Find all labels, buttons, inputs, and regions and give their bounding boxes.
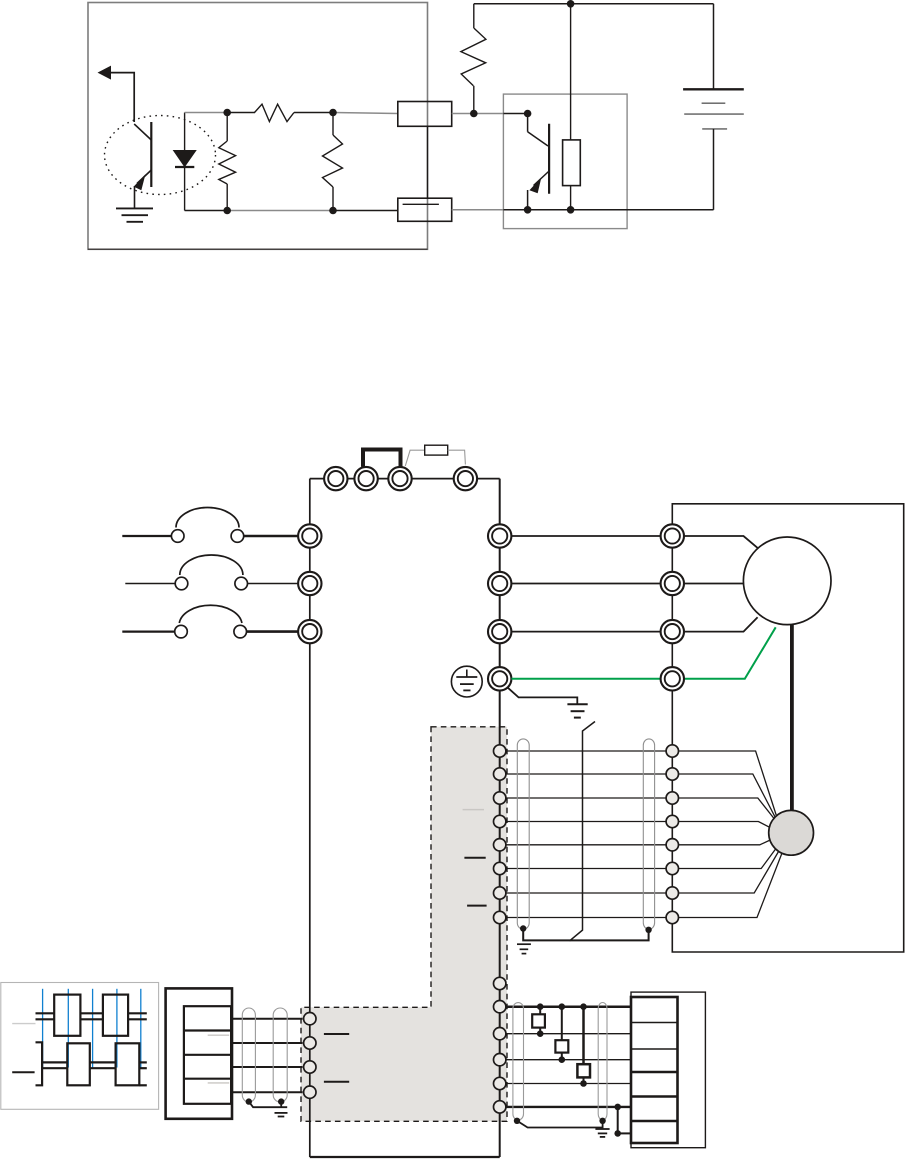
- shield loop (drive side, encoder cable): [517, 739, 529, 929]
- encoder pin 7 (motor side): [666, 887, 678, 899]
- encoder fan-out wire 3: [679, 798, 778, 822]
- shield junction left (pulse): [246, 1098, 252, 1104]
- node: contact 2 bottom: [559, 1056, 566, 1063]
- pulse input pin 1: [304, 1013, 316, 1025]
- encoder wire row 3: [506, 797, 666, 799]
- shield drain junction (left): [520, 925, 526, 931]
- I/O pin 3: [494, 1054, 506, 1066]
- input terminal R: [298, 524, 321, 547]
- relay coil box DO+: [398, 102, 452, 127]
- motor shaft link to encoder: [790, 624, 794, 810]
- encoder pin 5 (drive side): [494, 839, 506, 851]
- pulse wire 2: [231, 1042, 302, 1044]
- encoder pin 8 (drive side): [494, 911, 506, 923]
- terminal P (top row): [354, 467, 377, 490]
- encoder wire row 1: [506, 750, 666, 752]
- braking resistor: [405, 445, 465, 466]
- output terminal V (drive): [488, 572, 511, 595]
- shield loop (pulse cable, left): [242, 1008, 255, 1102]
- encoder pin 4 (drive side): [494, 815, 506, 827]
- circuit breaker pole 2: [125, 555, 298, 590]
- I/O pin 0 (spare): [494, 977, 506, 989]
- photodiode D-opto: [174, 113, 196, 211]
- pulse input pin 3: [304, 1061, 316, 1073]
- wire: W drive to motor terminal: [511, 631, 660, 633]
- shield drain wire (pulse): [249, 1102, 287, 1108]
- label dash (encoder row 5): [464, 857, 485, 859]
- I/O connector pin block: [631, 997, 678, 1143]
- DC bus jumper bar (P-P1): [363, 450, 401, 467]
- label dash (connector cell 4, gray): [208, 1082, 230, 1084]
- wire: external top rail: [474, 3, 714, 5]
- circuit breaker pole 3: [122, 605, 298, 638]
- resistor R4 (external pull-up): [461, 4, 486, 114]
- shield loop (I/O cable, right): [598, 1003, 607, 1120]
- encoder fan-out wire 2: [679, 774, 777, 819]
- shield drain wire (I/O): [517, 1121, 603, 1128]
- encoder pin 4 (motor side): [666, 815, 678, 827]
- terminal B2 (top row): [454, 467, 477, 490]
- node: contact 3 top: [580, 1003, 587, 1010]
- ground (encoder shield): [517, 944, 531, 953]
- wire: split to connector: [618, 1132, 632, 1134]
- node: contact 2 top: [559, 1003, 566, 1010]
- encoder pin 3 (motor side): [666, 792, 678, 804]
- label dash (pulse pin 4): [324, 1081, 349, 1083]
- waveform blue gridline 4: [116, 989, 118, 1068]
- resistor R2 (shunt, vertical at node A): [219, 113, 236, 211]
- shield junction right (pulse): [278, 1098, 284, 1104]
- encoder wire row 6: [506, 868, 666, 870]
- terminal B1 (top row): [388, 467, 411, 490]
- relay contact 1: [532, 1007, 545, 1034]
- label dash (waveform B): [12, 1071, 34, 1073]
- motor terminal V: [661, 572, 684, 595]
- waveform phase A pulses: [36, 995, 147, 1036]
- drive outline: bottom edge: [310, 1156, 500, 1158]
- node B top: [329, 109, 337, 117]
- relay contact 3: [577, 1007, 590, 1084]
- drive outline: right bus: [499, 479, 501, 1157]
- label dash (pulse pin 2): [324, 1033, 349, 1035]
- wire: split down: [617, 1107, 619, 1134]
- node: Q1 emitter to rail: [524, 206, 532, 214]
- input terminal S: [298, 572, 321, 595]
- node: Q1 collector: [524, 110, 532, 118]
- node A bottom: [223, 207, 231, 215]
- pulse wire 4: [231, 1091, 302, 1093]
- resistor R5 (load, rectangle): [563, 4, 581, 210]
- I/O wire row 5 (thick): [506, 1106, 632, 1108]
- drive outline: top edge: [310, 478, 500, 480]
- encoder fan-out wire 1: [679, 751, 777, 816]
- input terminal T: [298, 620, 321, 643]
- waveform blue gridline 1: [42, 989, 44, 1068]
- encoder wire row 5: [506, 844, 666, 846]
- motor enclosure box: [672, 504, 903, 952]
- motor M: [743, 537, 831, 625]
- waveform blue gridline 3: [92, 989, 94, 1068]
- pulse wire 1: [231, 1018, 302, 1020]
- wire: node to series resistor: [227, 112, 255, 114]
- wire: motor lead W: [685, 617, 758, 631]
- wire: resistor to node B: [294, 112, 333, 114]
- motor ground terminal: [661, 667, 684, 690]
- shield drain junction (right): [645, 927, 651, 933]
- label dash (encoder, gray): [463, 809, 484, 811]
- I/O pin 1: [494, 1001, 506, 1013]
- encoder pin 6 (motor side): [666, 862, 678, 874]
- encoder fan-out wire 4: [679, 822, 770, 828]
- opto-isolator dotted ellipse PC1: [105, 116, 216, 195]
- node: top rail to load resistor: [567, 0, 575, 8]
- relay coil box DO- (with inner line): [398, 198, 452, 221]
- pulse connector outer shell: [166, 988, 232, 1118]
- encoder pin 2 (drive side): [494, 768, 506, 780]
- shield loop (motor side, encoder cable): [643, 739, 654, 929]
- wire: enclosure bottom edge (dark): [88, 248, 428, 250]
- waveform blue gridline 5: [140, 989, 142, 1068]
- encoder pin 7 (drive side): [494, 887, 506, 899]
- transistor Q1 (inside controller box): [503, 114, 549, 210]
- wire: U drive to motor terminal: [511, 535, 660, 537]
- encoder fan-out wire 7: [679, 849, 781, 894]
- ground terminal (drive): [488, 667, 511, 690]
- I/O wire row 3: [506, 1059, 632, 1061]
- node: I/O bus split bottom: [614, 1130, 621, 1137]
- pulse input pin 4: [304, 1086, 316, 1098]
- encoder wire row 2: [506, 773, 666, 775]
- waveform box: [1, 983, 159, 1110]
- motor terminal U: [661, 524, 684, 547]
- ground lead from earth terminal: [508, 688, 588, 718]
- encoder fan-out wire 5: [679, 840, 772, 845]
- encoder pin 1 (motor side): [666, 745, 678, 757]
- node: contact 1 bottom: [537, 1030, 544, 1037]
- encoder pin 8 (motor side): [666, 911, 678, 923]
- motor terminal W: [661, 620, 684, 643]
- circuit breaker pole 1: [122, 508, 298, 543]
- label dash (encoder row 7): [467, 905, 487, 907]
- shield loop (I/O cable, left): [513, 1003, 524, 1120]
- wire: bottom rail: [185, 210, 228, 212]
- terminal P1 (top row): [324, 467, 347, 490]
- wire: motor lead U: [685, 536, 758, 548]
- ground (I/O shield): [595, 1129, 609, 1137]
- encoder wire row 7: [506, 892, 666, 894]
- shield junction left (I/O): [514, 1118, 520, 1124]
- pulse input pin 2: [304, 1037, 316, 1049]
- encoder pin 6 (drive side): [494, 862, 506, 874]
- shield drain wire: [523, 929, 648, 941]
- resistor R3 (shunt, vertical at node B): [323, 113, 343, 211]
- wire: V drive to motor terminal: [511, 583, 660, 585]
- wire: DO- box to external box (gray): [452, 209, 504, 211]
- phototransistor Q-opto: [134, 122, 151, 208]
- encoder pin 2 (motor side): [666, 768, 678, 780]
- resistor R1 (series, horizontal): [255, 104, 295, 121]
- battery B1: [683, 4, 744, 210]
- I/O wire row 4: [506, 1083, 632, 1085]
- waveform phase B pulses: [36, 1042, 147, 1085]
- wire: node B to relay box (gray): [333, 113, 398, 114]
- output terminal U (drive): [488, 524, 511, 547]
- wire: DO+ box to external node (gray): [452, 113, 504, 115]
- label dash (waveform A, gray): [12, 1023, 35, 1025]
- wire: motor lead V: [685, 583, 746, 585]
- node B bottom: [329, 207, 337, 215]
- cable shield slash mark: [570, 722, 596, 941]
- I/O pin 2: [494, 1028, 506, 1040]
- I/O wire row 1 (thick): [506, 1005, 632, 1008]
- encoder pin 1 (drive side): [494, 745, 506, 757]
- shaded control-board area (L-shaped, dashed): [301, 727, 507, 1122]
- label dash (connector cell 2, gray): [208, 1034, 230, 1036]
- waveform blue gridline 2: [67, 989, 69, 1068]
- encoder pin 5 (motor side): [666, 839, 678, 851]
- node: contact 3 bottom: [580, 1080, 587, 1087]
- I/O pin 4: [494, 1077, 506, 1089]
- external controller box: [503, 94, 627, 229]
- I/O pin 5: [494, 1101, 506, 1113]
- drive enclosure box (top-left): [88, 3, 428, 250]
- drive outline: left bus: [309, 479, 311, 1157]
- pulse connector pin block: [184, 1006, 231, 1104]
- wire: external bottom rail: [503, 209, 713, 211]
- protective earth symbol (circled ground): [451, 666, 482, 697]
- wire: link between DO boxes: [427, 126, 429, 198]
- encoder body: [769, 810, 814, 855]
- pulse wire 3: [231, 1066, 302, 1068]
- encoder pin 3 (drive side): [494, 792, 506, 804]
- node: R5 bottom: [567, 206, 575, 214]
- encoder wire row 4: [506, 821, 666, 823]
- output terminal W (drive): [488, 620, 511, 643]
- I/O wire row 2: [506, 1033, 632, 1035]
- signal output arrow: [99, 66, 135, 122]
- green earth wire: [511, 627, 775, 679]
- node: R4 to signal line: [470, 110, 478, 118]
- encoder fan-out wire 8: [679, 851, 783, 918]
- ground (opto emitter): [116, 208, 153, 221]
- I/O connector outer shell: [631, 992, 705, 1148]
- node: I/O bus split top: [614, 1104, 621, 1111]
- ground (pulse shield): [275, 1102, 288, 1117]
- node A top: [223, 109, 231, 117]
- shield junction right (I/O): [599, 1118, 605, 1124]
- node: contact 1 top: [537, 1003, 544, 1010]
- wire: top rail from diode to R2 node: [185, 112, 228, 114]
- shield loop (pulse cable, right): [273, 1008, 287, 1102]
- encoder fan-out wire 6: [679, 846, 778, 869]
- encoder wire row 8: [506, 917, 666, 919]
- relay contact 2: [555, 1007, 568, 1060]
